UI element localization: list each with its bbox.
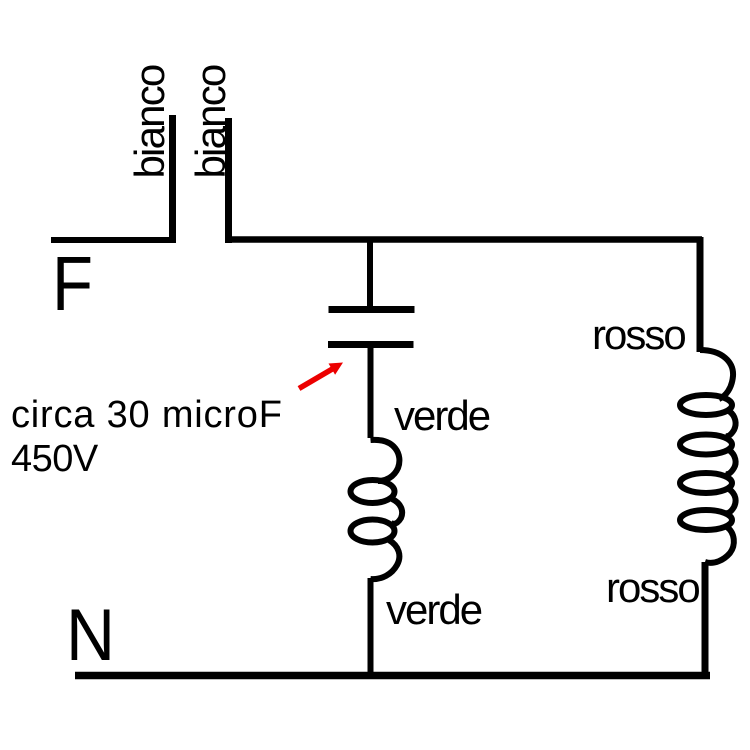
svg-text:verde: verde: [394, 392, 490, 439]
svg-text:bianco: bianco: [126, 65, 173, 178]
svg-text:rosso: rosso: [592, 311, 685, 358]
svg-text:F: F: [52, 241, 93, 327]
svg-text:verde: verde: [386, 586, 482, 633]
svg-text:450V: 450V: [11, 438, 99, 480]
svg-text:rosso: rosso: [606, 564, 699, 611]
svg-text:circa 30 microF: circa 30 microF: [11, 394, 283, 436]
svg-text:bianco: bianco: [187, 65, 234, 178]
svg-text:N: N: [66, 595, 115, 676]
